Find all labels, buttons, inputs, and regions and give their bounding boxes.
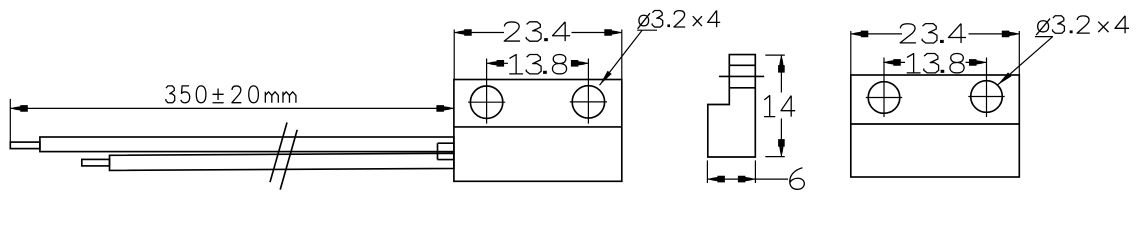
leader line diagonal (front view hole label)	[600, 30, 643, 85]
13.8 dimension line left segment (back view)	[883, 61, 905, 63]
6 dim arrow right	[738, 176, 756, 183]
side view rib line 3	[729, 87, 755, 89]
23.4 front arrow left	[454, 29, 472, 36]
14 dim arrow up	[778, 55, 785, 73]
crosshair horizontal, right hole back view	[968, 96, 1004, 98]
hole circle right (back view)	[971, 81, 1003, 113]
crosshair vertical / 13.8 extension, right hole front view	[587, 59, 589, 124]
hole circle right (front view)	[572, 86, 604, 118]
text 6 (side view)	[790, 168, 805, 190]
body front view divider line	[454, 126, 622, 128]
hole circle left (back view)	[868, 82, 900, 114]
leader hook under label (back view)	[1035, 36, 1053, 38]
14 dimension line upper segment	[780, 55, 782, 92]
6 dimension line	[707, 178, 788, 180]
wire 2 insulation	[110, 153, 454, 170]
text 23.4 (back view)	[900, 24, 966, 43]
side view rib line 2 (extended parting line)	[719, 75, 764, 77]
23.4 dimension line right segment (front view)	[572, 32, 622, 34]
23.4 dimension line left segment (back view)	[851, 33, 902, 35]
14 dim extension bottom	[765, 156, 785, 158]
leader arrowhead (front view)	[597, 71, 611, 87]
350mm dim arrow left	[10, 105, 28, 112]
350mm dimension line	[10, 107, 454, 109]
6 dim extension right	[754, 160, 756, 183]
hole circle left (front view)	[470, 86, 502, 118]
23.4 back arrow left	[851, 31, 869, 38]
13.8 back arrow left	[883, 59, 901, 66]
leader arrowhead (back view)	[996, 72, 1012, 87]
350mm dimension extension line (left)	[9, 99, 11, 149]
body back view outline	[851, 75, 1020, 177]
13.8 front arrow left	[487, 60, 505, 67]
text 13.8 (front view)	[509, 55, 566, 74]
text 13.8 (back view)	[907, 54, 964, 73]
body back view divider line	[851, 123, 1020, 125]
text ø3.2×4 (back view)	[1036, 16, 1129, 35]
crosshair vertical / 13.8 extension, right hole back view	[986, 58, 988, 118]
350mm dim arrow right	[436, 105, 454, 112]
23.4 front arrow right	[604, 29, 622, 36]
crosshair vertical / 13.8 extension, left hole front view	[486, 59, 488, 124]
wire 3 stub at body	[438, 143, 454, 159]
wire 1 insulation	[40, 137, 454, 152]
wire 2 stripped tip	[82, 159, 110, 166]
23.4 extension line left (front view)	[453, 30, 455, 80]
14 dim arrow down	[778, 139, 785, 157]
13.8 dimension line right segment (front view)	[573, 62, 588, 64]
6 dim arrow left	[707, 176, 725, 183]
23.4 extension line right (front view)	[621, 30, 623, 80]
23.4 back arrow right	[1002, 31, 1020, 38]
cable break symbol line 2	[280, 130, 297, 190]
crosshair horizontal, left hole back view	[866, 97, 902, 99]
crosshair vertical / 13.8 extension, left hole back view	[883, 58, 885, 118]
side view rib line 1	[729, 64, 755, 66]
wire 1 stripped tip	[10, 142, 40, 149]
23.4 extension line left (back view)	[850, 31, 852, 75]
leader hook under label (front view)	[637, 29, 657, 31]
text 350±20mm	[166, 86, 296, 103]
body front view outline	[454, 80, 622, 182]
13.8 dimension line right segment (back view)	[966, 61, 987, 63]
13.8 front arrow right	[571, 60, 589, 67]
23.4 dimension line left segment (front view)	[454, 32, 504, 34]
side view outline	[708, 55, 756, 157]
14 dimension line lower segment	[780, 119, 782, 157]
crosshair horizontal, left hole front view	[468, 101, 505, 103]
text 23.4 (front view)	[504, 22, 570, 41]
13.8 back arrow right	[969, 59, 987, 66]
leader line diagonal (back view hole label)	[997, 37, 1052, 85]
13.8 dimension line left segment (front view)	[487, 62, 508, 64]
14 dim extension top	[765, 54, 785, 56]
cable break symbol line 1	[270, 123, 287, 183]
text ø3.2×4 (front view)	[638, 11, 721, 29]
text 14 (side view)	[764, 96, 775, 117]
crosshair horizontal, right hole front view	[570, 101, 607, 103]
6 dim extension left	[706, 160, 708, 183]
23.4 extension line right (back view)	[1018, 31, 1020, 75]
23.4 dimension line right segment (back view)	[969, 33, 1020, 35]
